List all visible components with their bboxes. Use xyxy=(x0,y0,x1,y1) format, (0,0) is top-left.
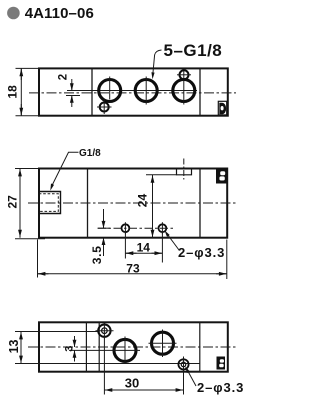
top view port centerline xyxy=(67,90,197,92)
mounting hole bottom right inner xyxy=(181,362,186,367)
port circle 3 xyxy=(173,80,195,102)
exhaust circle right crosshair h xyxy=(149,342,177,344)
mounting hole left crosshair v xyxy=(124,222,126,234)
dim 14 arrow right xyxy=(152,252,162,254)
port circle 1 xyxy=(99,80,121,102)
dim 30 arrow right xyxy=(173,389,183,391)
dim 14 left extension xyxy=(124,232,126,259)
svg-text:3: 3 xyxy=(64,346,76,352)
dim 14 arrow left xyxy=(126,252,137,254)
mounting holes centerline xyxy=(98,227,175,229)
dim 27 arrow up xyxy=(19,169,21,180)
dim 24 arrow down xyxy=(152,227,154,238)
dim 2 upper arrow xyxy=(71,79,73,91)
dim 18 bottom extension xyxy=(16,115,39,117)
dim 30 left extension xyxy=(103,339,105,395)
port circle 2 crosshair xyxy=(145,77,147,105)
bottom view body outline xyxy=(39,322,228,371)
pilot hole above circle 3 xyxy=(180,70,189,79)
exhaust circle right crosshair v xyxy=(162,330,164,358)
bottom view lower inner edge xyxy=(39,363,200,365)
dim 73 arrow right xyxy=(216,273,226,275)
dim 24 arrow up xyxy=(152,175,154,186)
svg-text:2–φ3.3: 2–φ3.3 xyxy=(197,380,244,395)
label 5-G1/8 leader xyxy=(153,50,162,74)
dim 3 upper arrow xyxy=(74,336,76,347)
exhaust circle left crosshair v xyxy=(124,337,126,365)
dim 3.5 lower shaft and arrow xyxy=(103,238,105,256)
top tab centerline xyxy=(183,159,185,182)
label 5-G1/8 leader arrowhead xyxy=(151,72,154,79)
pilot hole below circle 1 crosshair h xyxy=(97,106,112,108)
dim 13 top extension xyxy=(15,331,39,333)
pilot hole below circle 1 xyxy=(100,103,109,112)
bottom view right joint line xyxy=(199,322,201,371)
mounting hole bottom right crosshair v xyxy=(183,357,185,373)
counterbore hole crosshair h xyxy=(96,330,114,332)
label 2-phi3.3 middle leader xyxy=(166,233,179,251)
dim 30 right extension xyxy=(183,370,185,395)
svg-text:14: 14 xyxy=(137,240,151,254)
dim 13 arrow up xyxy=(20,332,22,342)
label G1/8 leader arrowhead xyxy=(50,184,54,191)
top view lower tick for dim 2 xyxy=(66,95,80,97)
dim 13 line xyxy=(20,332,22,364)
dim 27 top extension xyxy=(15,168,38,170)
svg-text:73: 73 xyxy=(126,262,140,276)
dim 27 line xyxy=(19,169,21,238)
svg-text:18: 18 xyxy=(6,85,20,99)
label G1/8 leader xyxy=(52,152,79,186)
dim 2 lower arrow xyxy=(71,96,73,108)
side port boss solid outline xyxy=(39,192,61,214)
dim 18 line xyxy=(20,68,22,115)
dim 24 line xyxy=(152,175,154,238)
dim 27 bottom extension xyxy=(15,238,45,240)
dim 73 arrow left xyxy=(38,273,48,275)
svg-text:30: 30 xyxy=(125,375,139,390)
svg-text:4A110–06: 4A110–06 xyxy=(25,5,94,22)
dim 13 bottom extension xyxy=(15,363,39,365)
middle view main centerline xyxy=(28,202,236,204)
mounting hole right crosshair v xyxy=(161,222,163,234)
label 2-phi3.3 middle leader arrowhead xyxy=(165,230,170,237)
bottom view left joint line 1 xyxy=(85,322,87,371)
dim 14 line xyxy=(125,252,162,254)
top view main centerline xyxy=(29,92,236,94)
bottom view left joint line 2 xyxy=(98,322,100,371)
port circle 1 crosshair xyxy=(109,77,111,100)
svg-text:5–G1/8: 5–G1/8 xyxy=(164,41,223,60)
dim 73 line xyxy=(38,273,227,275)
dim 3 lower arrow xyxy=(74,350,76,361)
dim 18 arrow down xyxy=(20,104,22,115)
svg-text:2–φ3.3: 2–φ3.3 xyxy=(178,245,225,260)
bottom view upper inner edge xyxy=(39,331,100,333)
middle view right cap joint line xyxy=(199,169,201,238)
dim 30 line xyxy=(104,389,183,391)
dim 73 left extension xyxy=(37,240,39,278)
dim 3.5 tick at hole line xyxy=(98,227,111,229)
counterbore hole crosshair v xyxy=(103,323,105,340)
dim 73 right extension xyxy=(226,240,228,280)
side port boss hidden thread lines xyxy=(39,194,59,212)
top view right cap joint line xyxy=(199,68,201,115)
bottom view solenoid connector mark xyxy=(217,357,226,370)
port circle 2 xyxy=(135,80,157,102)
top view manual override D shape xyxy=(219,103,226,115)
label 2-phi3.3 bottom leader xyxy=(187,370,196,387)
dim 27 arrow down xyxy=(19,226,21,237)
dim 18 top extension xyxy=(16,67,39,69)
dim 3.5 upper shaft and arrow xyxy=(103,209,105,228)
dim 24 top extension xyxy=(146,174,177,176)
mounting hole left xyxy=(122,224,130,232)
dim 18 arrow up xyxy=(20,69,22,80)
exhaust circle left center line xyxy=(69,349,140,351)
bottom view main centerline xyxy=(28,346,236,348)
middle view solenoid connector mark xyxy=(216,169,227,184)
middle view body outline xyxy=(39,169,227,238)
mounting hole right xyxy=(159,224,167,232)
svg-text:24: 24 xyxy=(136,194,150,208)
svg-text:27: 27 xyxy=(5,195,19,209)
mounting hole bottom right outer xyxy=(178,359,188,369)
svg-text:13: 13 xyxy=(7,339,21,353)
pilot hole below circle 1 crosshair v xyxy=(103,100,105,114)
svg-text:2: 2 xyxy=(57,74,69,80)
counterbore hole top left outer xyxy=(98,325,110,337)
top tab on middle view xyxy=(177,169,192,175)
pilot hole above circle 3 crosshair h xyxy=(177,74,191,76)
label 2-phi3.3 bottom leader arrowhead xyxy=(185,366,190,373)
port circle 3 crosshair xyxy=(183,69,185,105)
dim 30 arrow left xyxy=(105,389,116,391)
title bullet xyxy=(7,7,20,20)
svg-text:3.5: 3.5 xyxy=(90,245,104,264)
dim 13 arrow down xyxy=(20,353,22,363)
counterbore hole top left inner xyxy=(102,328,108,334)
middle view left cap joint line xyxy=(87,169,89,238)
dim 14 right extension xyxy=(161,232,163,263)
top view body outline xyxy=(39,68,228,115)
svg-text:G1/8: G1/8 xyxy=(79,148,101,159)
top view left cap joint line xyxy=(91,68,93,115)
exhaust circle left xyxy=(114,339,136,361)
exhaust circle right xyxy=(152,332,174,354)
top view manual override detail box xyxy=(218,101,226,115)
